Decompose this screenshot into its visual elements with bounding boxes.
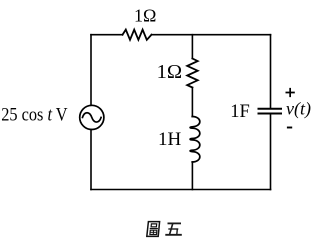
wire right lower [270,115,272,190]
ac source sine wave [83,113,102,122]
svg-text:1Ω: 1Ω [157,61,183,83]
svg-text:1H: 1H [158,129,182,150]
wire right upper [270,35,272,108]
wire left upper [90,35,92,106]
wire middle between R2 and L1 [191,88,193,117]
wire bottom [91,189,271,191]
svg-text:v(t): v(t) [286,99,311,120]
resistor R2 1Ω (middle, vertical zigzag) [187,59,198,88]
label - polarity [287,127,292,129]
caption character 五 (drawn as strokes) [165,223,182,234]
svg-text:1F: 1F [230,102,250,122]
wire middle upper [191,35,193,59]
svg-text:1Ω: 1Ω [134,6,156,26]
wire left lower [90,130,92,190]
wire top-left segment [91,34,123,36]
svg-text:25 cos t V: 25 cos t V [1,103,68,124]
caption character 圖 (drawn as strokes) [147,222,160,237]
wire top-right segment [152,34,271,36]
capacitor C1 bottom plate [259,113,282,115]
inductor L1 1H (4 loops) [190,117,200,163]
label + polarity [286,88,295,97]
wire middle lower [191,162,193,190]
ac source VS circle [80,105,104,129]
capacitor C1 top plate [259,108,282,110]
resistor R1 1Ω (top, horizontal zigzag) [123,30,152,40]
